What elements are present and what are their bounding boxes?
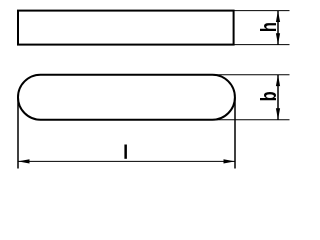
extension line bottom of h	[234, 44, 290, 46]
label l	[124, 145, 127, 159]
key top view outline (stadium)	[18, 75, 235, 120]
key side view outline (rectangle)	[18, 11, 234, 45]
extension line top of h	[234, 10, 290, 12]
extension line left of l	[17, 97, 19, 168]
dimension line b	[277, 75, 279, 120]
arrowhead l left	[18, 159, 30, 163]
arrowhead b top	[276, 75, 280, 86]
svg-text:b: b	[257, 91, 282, 101]
dimension line l	[18, 160, 235, 162]
arrowhead h bottom	[276, 33, 280, 44]
arrowhead h top	[276, 11, 280, 22]
arrowhead l right	[224, 159, 236, 163]
svg-text:h: h	[257, 22, 282, 32]
extension line top of b	[212, 74, 290, 76]
extension line bottom of b	[212, 119, 290, 121]
dimension line h	[277, 11, 279, 45]
extension line right of l	[234, 97, 236, 168]
arrowhead b bottom	[276, 108, 280, 119]
